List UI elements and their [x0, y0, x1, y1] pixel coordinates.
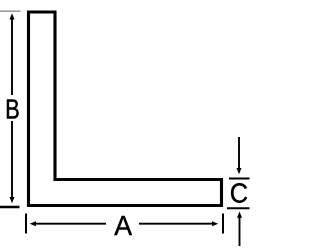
dimension A right extension line	[222, 214, 224, 234]
dimension C lower arrow line	[239, 217, 241, 246]
dimension B upper arrowhead	[10, 13, 15, 19]
dimension C bottom extension line	[227, 207, 250, 209]
svg-text:B: B	[5, 94, 20, 125]
dimension A line right segment	[139, 223, 214, 225]
dimension A left arrowhead	[30, 221, 36, 226]
dimension B top extension line	[0, 10, 21, 12]
dimension A left extension line	[25, 214, 27, 234]
svg-text:A: A	[114, 210, 133, 241]
dimension C upper arrowhead (pointing down)	[237, 168, 242, 174]
dimension A right arrowhead	[212, 221, 218, 226]
dimension C lower arrowhead (pointing up)	[237, 212, 242, 218]
dimension C top extension line	[229, 178, 250, 180]
dimension B line upper segment	[11, 18, 13, 95]
dimension B bottom extension line	[0, 206, 20, 208]
L-angle profile outline	[29, 12, 222, 206]
svg-text:C: C	[230, 177, 248, 208]
dimension C upper arrow line	[238, 137, 240, 169]
dimension B lower arrowhead	[10, 197, 15, 203]
dimension B line lower segment	[11, 121, 13, 198]
dimension A line left segment	[35, 223, 107, 225]
